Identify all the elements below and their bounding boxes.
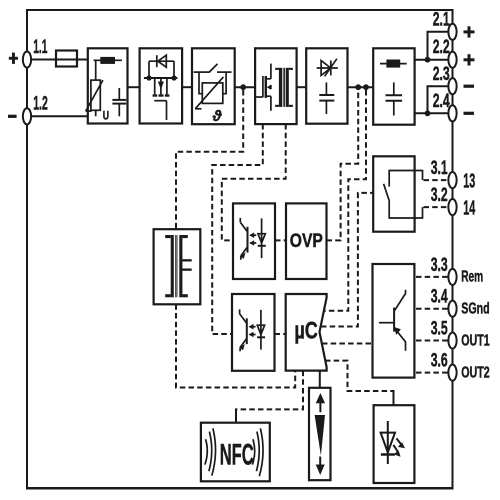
label plus input xyxy=(9,53,18,64)
svg-text:SGnd: SGnd xyxy=(461,301,490,318)
wire dashed uC pin3 to output transistor xyxy=(322,343,373,345)
svg-text:OVP: OVP xyxy=(290,231,323,252)
adjust arrows xyxy=(315,393,326,475)
label minus input xyxy=(8,115,17,118)
fuse F1 xyxy=(56,51,88,67)
optocoupler U3 box xyxy=(232,294,275,371)
optocoupler U3 symbol xyxy=(240,309,266,351)
svg-text:OUT2: OUT2 xyxy=(461,364,490,381)
wire bottom rail xyxy=(26,487,454,490)
wire box5-box6 xyxy=(348,86,374,88)
svg-text:µC: µC xyxy=(294,318,318,345)
choke L2 xyxy=(380,60,407,68)
node J0 xyxy=(240,84,246,90)
wire input 1.2 xyxy=(31,115,88,117)
NFC symbol xyxy=(205,428,263,476)
wire link 2.1 xyxy=(428,32,449,60)
terminal 3.3 xyxy=(448,269,456,285)
svg-text:OUT1: OUT1 xyxy=(461,332,490,349)
switching stage box xyxy=(255,48,297,124)
capacitor C2 xyxy=(319,82,334,114)
terminal 3.2 xyxy=(448,199,456,215)
terminal 2.3 xyxy=(448,78,456,94)
terminal 2.1 xyxy=(448,24,456,40)
OVP box xyxy=(286,203,327,279)
svg-text:1.1: 1.1 xyxy=(33,37,47,58)
svg-text:3.6: 3.6 xyxy=(431,350,448,371)
node J1 xyxy=(355,84,361,90)
capacitor C1 xyxy=(112,88,126,116)
svg-text:3.4: 3.4 xyxy=(431,287,448,308)
wire output 2.4 xyxy=(415,112,449,114)
svg-text:ϑ: ϑ xyxy=(212,108,223,125)
NFC box xyxy=(201,423,270,482)
node J2 xyxy=(363,84,369,90)
wire box1-box2 xyxy=(128,86,140,88)
wire dashed 3.6 xyxy=(416,372,448,374)
wire dashed opto1 to OVP xyxy=(275,239,286,241)
reverse polarity protection box xyxy=(140,48,183,123)
thermal switch xyxy=(194,64,232,94)
node J3 xyxy=(425,57,431,63)
terminal 3.4 xyxy=(448,301,456,317)
label minus 2.3 xyxy=(464,85,475,88)
wire dashed J2 to uC pin1 xyxy=(324,90,366,311)
wire dashed 3.4 xyxy=(416,308,448,310)
LED D3 xyxy=(381,421,405,464)
terminal 2.4 xyxy=(448,105,456,121)
input filter box xyxy=(88,48,128,123)
thermal protection box xyxy=(192,48,235,124)
label plus 2.2 xyxy=(464,54,475,65)
mosfet Q2 xyxy=(255,64,271,111)
wire dashed box4 gate drive 1 xyxy=(212,124,263,334)
label plus 2.1 xyxy=(464,26,475,37)
svg-text:13: 13 xyxy=(463,171,475,193)
svg-text:2.3: 2.3 xyxy=(433,64,450,85)
terminal 3.6 xyxy=(448,365,456,381)
wire dashed 3.2 xyxy=(424,206,449,208)
transformer T1 primary xyxy=(275,68,293,107)
wire dashed box4 gate drive 2 xyxy=(222,124,286,240)
isolation transformer box xyxy=(154,229,201,304)
wire dashed uC to NFC xyxy=(236,371,303,410)
svg-text:U: U xyxy=(103,109,109,123)
diode D2 xyxy=(317,59,338,77)
setpoint adjust box xyxy=(309,388,331,480)
wire box3-box4 xyxy=(235,86,255,88)
terminal 1.1 xyxy=(23,51,31,67)
mosfet Q1 xyxy=(144,75,178,120)
wire LED stub xyxy=(393,390,395,405)
wire dashed transformer T2 to uC xyxy=(176,304,295,387)
transistor Q3 xyxy=(379,290,406,351)
terminal 3.1 xyxy=(448,172,456,188)
body diode D1 xyxy=(149,55,174,78)
terminal 2.2 xyxy=(448,52,456,68)
svg-text:3.3: 3.3 xyxy=(431,255,448,276)
wire NFC stub xyxy=(235,408,237,422)
svg-text:2.2: 2.2 xyxy=(433,37,450,58)
wire dashed uC pin2 to relay xyxy=(321,193,373,327)
microcontroller U1 box xyxy=(286,294,327,371)
svg-text:3.2: 3.2 xyxy=(431,185,448,206)
wire dashed J0 to transformer T2 xyxy=(176,90,243,229)
transformer T2 xyxy=(165,235,192,297)
relay contact xyxy=(384,171,423,219)
optocoupler U2 box xyxy=(233,203,275,279)
label minus 2.4 xyxy=(464,112,475,115)
svg-text:2.1: 2.1 xyxy=(433,10,450,31)
varistor RU xyxy=(86,60,103,116)
wire uC to setpoint box xyxy=(319,371,321,388)
LED box xyxy=(374,405,415,483)
capacitor C3 xyxy=(386,82,403,115)
wire input 1.1 to fuse xyxy=(31,59,56,61)
wire link 2.3 xyxy=(428,86,449,113)
output filter box xyxy=(373,48,414,124)
svg-text:Rem: Rem xyxy=(461,269,483,286)
wire dashed 3.1 xyxy=(424,179,449,181)
wire dashed OVP to J1 xyxy=(327,90,359,240)
svg-text:3.1: 3.1 xyxy=(431,158,448,179)
svg-text:3.5: 3.5 xyxy=(431,318,448,339)
thermistor Rth xyxy=(195,77,223,109)
relay K1 box xyxy=(373,156,414,231)
optocoupler U2 symbol xyxy=(240,218,266,260)
svg-text:1.2: 1.2 xyxy=(33,93,48,114)
wire dashed 3.5 xyxy=(416,340,448,342)
node J4 xyxy=(425,110,431,116)
wire dashed uC pin4 to LED xyxy=(325,361,394,391)
wire box2-box3 xyxy=(182,86,192,88)
output transistor box xyxy=(373,264,415,378)
wire box4-box5 xyxy=(297,86,307,88)
terminal 1.2 xyxy=(23,108,31,124)
svg-text:NFC: NFC xyxy=(220,438,254,471)
svg-text:2.4: 2.4 xyxy=(433,91,450,112)
wire dashed opto2 to uC xyxy=(275,333,286,335)
wire dashed 3.3 xyxy=(416,276,448,278)
rectifier box xyxy=(306,48,347,123)
wire output 2.2 xyxy=(415,59,449,61)
terminal 3.5 xyxy=(448,332,456,348)
svg-text:14: 14 xyxy=(463,198,475,220)
choke L1 xyxy=(94,57,122,64)
